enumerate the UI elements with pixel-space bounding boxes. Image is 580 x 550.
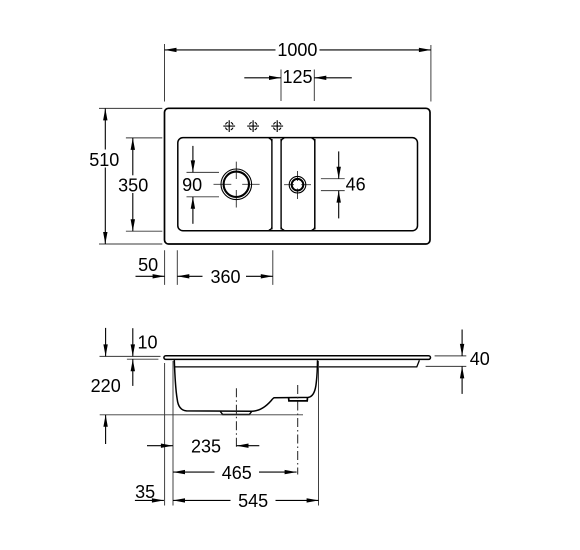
dimension 46 extension lines	[321, 179, 345, 191]
dimension 50	[136, 255, 165, 278]
svg-text:50: 50	[138, 255, 158, 275]
dimension 360	[177, 267, 272, 287]
left drain outer circle	[221, 169, 252, 200]
rim underside line	[175, 360, 420, 367]
svg-text:235: 235	[191, 437, 221, 457]
left drain crosshair	[214, 162, 260, 208]
left drain inner circle	[224, 172, 249, 197]
divider left bowl / middle bowl (left line)	[269, 138, 272, 230]
dimension 125 extension lines	[281, 70, 314, 102]
dimension 46	[337, 151, 366, 218]
dimension 10/220 extension lines	[100, 356, 304, 414]
svg-text:90: 90	[182, 175, 202, 195]
dimension 40	[460, 330, 490, 394]
dimension 465	[173, 463, 297, 483]
svg-text:220: 220	[91, 376, 121, 396]
dimension 545	[173, 491, 319, 511]
dimension 1000 extension lines	[165, 44, 431, 102]
dimension 350 extension lines	[126, 138, 162, 231]
svg-text:35: 35	[135, 482, 155, 502]
sink outer outline (top view)	[165, 108, 431, 244]
dimension 40 extension lines	[426, 356, 467, 367]
faucet hole symbol 3	[271, 120, 283, 132]
svg-text:545: 545	[238, 491, 268, 511]
dimension 1000	[165, 40, 431, 60]
svg-text:465: 465	[222, 463, 252, 483]
dimension 350	[118, 138, 148, 231]
inner basin outline	[178, 138, 418, 231]
centerline middle drain	[297, 385, 299, 475]
divider left bowl / middle bowl (right line)	[281, 138, 284, 230]
dimension 90 extension lines	[187, 172, 220, 196]
dimension 50/360 extension lines	[165, 250, 273, 285]
worktop rim section (side view)	[164, 356, 431, 360]
drain boss left	[220, 411, 251, 414]
dimension 10	[131, 328, 158, 386]
dimension 510	[89, 108, 119, 244]
dimension 90	[182, 146, 202, 224]
drain boss middle	[289, 398, 308, 401]
svg-text:360: 360	[210, 267, 240, 287]
svg-text:510: 510	[89, 150, 119, 170]
svg-text:46: 46	[346, 174, 366, 194]
middle drain crosshair	[284, 171, 311, 199]
bowl section outline	[174, 360, 317, 411]
middle drain inner circle	[292, 179, 304, 191]
middle drain outer circle	[289, 176, 306, 193]
dimension 220	[91, 328, 121, 444]
dimension 235	[147, 437, 259, 457]
svg-text:10: 10	[138, 332, 158, 352]
dimension 510 extension lines	[99, 108, 162, 244]
dimension 125	[244, 67, 351, 87]
faucet hole symbol 2	[247, 120, 259, 132]
bottom view vertical extension lines	[165, 361, 319, 506]
svg-text:40: 40	[470, 349, 490, 369]
svg-text:125: 125	[282, 67, 312, 87]
svg-text:1000: 1000	[277, 40, 317, 60]
divider middle bowl / drainboard	[312, 138, 315, 230]
faucet hole symbol 1	[223, 120, 235, 132]
centerline left drain	[235, 388, 237, 449]
dimension 35	[135, 482, 164, 503]
svg-text:350: 350	[118, 176, 148, 196]
